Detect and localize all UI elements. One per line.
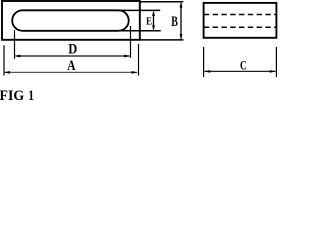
svg-text:E: E [146,16,152,28]
svg-text:FIG: FIG [0,88,24,104]
svg-text:B: B [171,14,178,30]
svg-text:A: A [67,58,76,74]
svg-text:D: D [68,42,77,58]
svg-text:C: C [240,59,247,73]
svg-text:1: 1 [28,88,34,104]
